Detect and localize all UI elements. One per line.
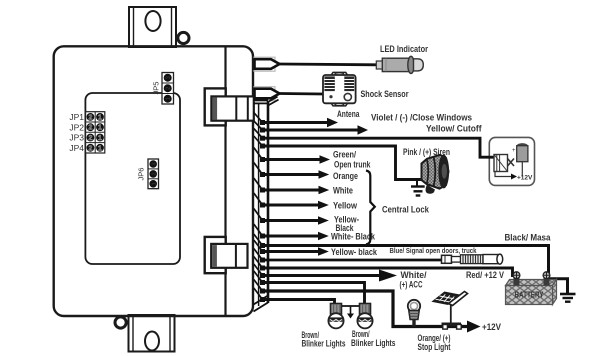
svg-text:Central Lock: Central Lock — [382, 205, 430, 216]
svg-text:+: + — [512, 148, 516, 154]
svg-text:Yellow/ Cutoff: Yellow/ Cutoff — [426, 124, 482, 135]
svg-text:JP1: JP1 — [69, 112, 84, 122]
svg-text:JP4: JP4 — [69, 143, 84, 153]
svg-text:Blinker Lights: Blinker Lights — [351, 338, 396, 348]
svg-text:Red/ +12 V: Red/ +12 V — [466, 270, 504, 280]
svg-text:JP3: JP3 — [69, 133, 84, 143]
svg-text:(+) ACC: (+) ACC — [400, 279, 423, 289]
svg-text:Stop Light: Stop Light — [418, 342, 451, 352]
svg-text:+12V: +12V — [482, 322, 501, 332]
svg-text:+12V: +12V — [517, 175, 533, 182]
svg-text:White/: White/ — [401, 270, 427, 280]
svg-text:Shock Sensor: Shock Sensor — [361, 89, 409, 100]
svg-text:Open trunk: Open trunk — [334, 160, 371, 170]
svg-text:Violet / (-) /Close Windows: Violet / (-) /Close Windows — [371, 113, 472, 123]
svg-text:Green/: Green/ — [333, 150, 356, 160]
svg-text:JP6: JP6 — [137, 168, 146, 181]
svg-text:JP2: JP2 — [69, 122, 84, 132]
svg-text:BATTERY: BATTERY — [515, 291, 545, 300]
svg-text:1: 1 — [98, 145, 102, 152]
svg-text:Antena: Antena — [337, 109, 360, 119]
svg-text:1: 1 — [98, 135, 102, 142]
svg-text:2: 2 — [88, 125, 92, 132]
svg-text:Blinker Lights: Blinker Lights — [302, 339, 346, 349]
svg-text:Blue/ Signal open doors, truck: Blue/ Signal open doors, truck — [390, 246, 478, 255]
svg-text:2: 2 — [151, 172, 157, 175]
svg-text:JP5: JP5 — [152, 82, 161, 95]
svg-text:Orange: Orange — [333, 171, 358, 181]
svg-text:LED Indicator: LED Indicator — [380, 44, 428, 54]
svg-text:2: 2 — [88, 135, 92, 142]
svg-text:Yellow: Yellow — [333, 201, 358, 211]
svg-text:Black/ Masa: Black/ Masa — [505, 233, 552, 244]
svg-text:White: White — [333, 186, 353, 196]
svg-text:2: 2 — [88, 114, 92, 121]
svg-text:Yellow- black: Yellow- black — [331, 247, 378, 257]
svg-text:1: 1 — [98, 125, 102, 132]
svg-text:White- Black: White- Black — [331, 232, 376, 242]
svg-text:2: 2 — [88, 145, 92, 152]
svg-text:1: 1 — [98, 114, 102, 121]
